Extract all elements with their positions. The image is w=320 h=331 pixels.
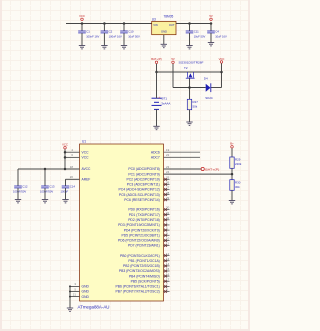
- wire: [81, 24, 83, 32]
- svg-text:PC3 (ADC3/PCINT11): PC3 (ADC3/PCINT11): [127, 183, 160, 187]
- junction: [64, 168, 67, 171]
- ground (C1): [79, 46, 85, 49]
- pin 24 wire (PC1) to divider: [164, 170, 233, 174]
- svg-text:C4: C4: [215, 29, 219, 33]
- pin 8 stub with no-connect cross: [164, 288, 170, 293]
- capacitor C2: [101, 29, 122, 38]
- wire (C13 to ground): [44, 188, 46, 200]
- pin 19 wire (ADC6): [164, 148, 201, 152]
- ground (C13): [42, 200, 48, 203]
- wire: [123, 24, 125, 32]
- pin 28 stub with no-connect cross: [164, 191, 170, 196]
- junction: [69, 296, 71, 298]
- pin 17 stub with no-connect cross: [164, 277, 170, 282]
- junction: [188, 22, 191, 25]
- wire (C14 lead from AREF): [65, 179, 67, 186]
- svg-text:100nF 16V: 100nF 16V: [86, 35, 99, 39]
- svg-text:18: 18: [70, 165, 74, 169]
- svg-text:C2: C2: [109, 29, 113, 33]
- pin 31 stub with no-connect cross: [164, 211, 170, 216]
- svg-text:15: 15: [166, 267, 170, 271]
- svg-text:PC4 (ADC4-SDA/PCINT12): PC4 (ADC4-SDA/PCINT12): [119, 188, 160, 192]
- pin 3 stub (GND): [70, 282, 80, 286]
- junction: [103, 22, 106, 25]
- svg-text:PD6 (PCINT22/OC0A/AIN0): PD6 (PCINT22/OC0A/AIN0): [118, 239, 160, 243]
- svg-text:PD0 (RXD/PCINT16): PD0 (RXD/PCINT16): [128, 208, 159, 212]
- svg-text:AVCC: AVCC: [82, 167, 92, 171]
- pin 13 stub with no-connect cross: [164, 257, 170, 262]
- svg-text:VCC: VCC: [82, 150, 90, 154]
- capacitor C11: [186, 29, 206, 38]
- svg-text:PD7 (PCINT23/AIN1): PD7 (PCINT23/AIN1): [128, 244, 160, 248]
- svg-text:32: 32: [166, 216, 170, 220]
- designator U1: [82, 140, 86, 144]
- svg-text:PB5 (SCK/PCINT5): PB5 (SCK/PCINT5): [131, 279, 160, 283]
- capacitor C1: [78, 29, 99, 38]
- svg-text:C10: C10: [128, 29, 134, 33]
- wire (U3 GND lead): [163, 35, 165, 45]
- ground (C2): [101, 46, 107, 49]
- svg-text:10: 10: [166, 237, 170, 241]
- svg-text:U3: U3: [152, 17, 156, 21]
- svg-text:D4: D4: [204, 77, 208, 81]
- wire (BAT+ port to rail): [156, 64, 158, 72]
- battery BT1: [152, 96, 171, 109]
- svg-text:PB3 (PCINT3/OC2A/MOSI): PB3 (PCINT3/OC2A/MOSI): [119, 269, 160, 273]
- svg-text:PB0 (PCINT0/CLKO/ICP1): PB0 (PCINT0/CLKO/ICP1): [120, 254, 160, 258]
- junction: [231, 173, 234, 176]
- pin 9 stub with no-connect cross: [164, 231, 170, 236]
- svg-text:GND: GND: [82, 290, 90, 294]
- svg-text:50k: 50k: [193, 105, 198, 109]
- wire (C13 lead): [44, 169, 46, 186]
- svg-text:BAT+(P): BAT+(P): [205, 167, 219, 171]
- junction: [64, 151, 67, 154]
- ground (C10): [121, 46, 127, 49]
- pin 20 wire (AREF): [66, 175, 80, 179]
- wire (VCC node vertical): [221, 72, 223, 88]
- power port 5V: [209, 14, 213, 20]
- wire (R27 to ground): [189, 110, 191, 122]
- svg-text:12: 12: [166, 252, 170, 256]
- svg-text:PD3 (PCINT19/OC2B/INT1): PD3 (PCINT19/OC2B/INT1): [118, 223, 160, 227]
- svg-text:23: 23: [166, 165, 170, 169]
- wire (battery negative lead): [156, 109, 158, 126]
- svg-text:PB7 (PCINT7/XTAL2/TOSC2): PB7 (PCINT7/XTAL2/TOSC2): [116, 290, 160, 294]
- capacitor C13: [40, 184, 55, 193]
- pin 12 stub with no-connect cross: [164, 252, 170, 257]
- wire: [210, 33, 212, 43]
- svg-text:16: 16: [166, 272, 170, 276]
- svg-text:PC2 (ADC2/PCINT10): PC2 (ADC2/PCINT10): [127, 178, 160, 182]
- ground (C12): [15, 200, 21, 203]
- designator U3: [152, 17, 156, 21]
- svg-text:100nF 16V: 100nF 16V: [109, 35, 122, 39]
- capacitor C4: [207, 29, 227, 38]
- svg-text:PC0 (ADC0/PCINT8): PC0 (ADC0/PCINT8): [128, 167, 159, 171]
- svg-text:VIN: VIN: [153, 23, 158, 27]
- wire (T2 gate to pulldown): [189, 78, 191, 99]
- junction: [69, 285, 71, 287]
- svg-text:30: 30: [166, 206, 170, 210]
- capacitor C14: [61, 184, 76, 193]
- svg-text:AREF: AREF: [82, 178, 91, 182]
- pin 29 stub with no-connect cross: [164, 196, 170, 201]
- wire (5V port down to diode branch): [172, 64, 174, 88]
- svg-text:B+: B+: [230, 142, 234, 146]
- svg-text:C11: C11: [194, 29, 199, 33]
- pin 22 wire (ADC7): [164, 153, 201, 157]
- wire (C12 to ground): [17, 188, 19, 200]
- pin 32 stub with no-connect cross: [164, 216, 170, 221]
- svg-text:10uF 50V: 10uF 50V: [194, 35, 206, 39]
- svg-text:26: 26: [166, 181, 170, 185]
- pin 1 stub with no-connect cross: [164, 221, 170, 226]
- power port VCC: [62, 143, 68, 149]
- pin 2 stub with no-connect cross: [164, 226, 170, 231]
- transistor T2 (P-MOSFET SI2301): [186, 72, 195, 78]
- wire (VCC port lead): [221, 63, 223, 72]
- U1 left-side pin name labels: [82, 150, 92, 298]
- capacitor C12: [13, 184, 28, 193]
- junction: [69, 291, 71, 293]
- svg-text:U1: U1: [82, 140, 86, 144]
- pin 10 stub with no-connect cross: [164, 237, 170, 242]
- svg-text:C12: C12: [22, 184, 28, 188]
- svg-text:19: 19: [166, 148, 170, 152]
- ground (U3): [161, 44, 167, 47]
- wire: [210, 24, 212, 32]
- wire: [176, 23, 211, 25]
- ground (divider): [229, 201, 235, 204]
- pin 7 stub with no-connect cross: [164, 283, 170, 288]
- ground (U1): [67, 308, 73, 311]
- svg-text:PD1 (TXD/PCINT17): PD1 (TXD/PCINT17): [129, 213, 160, 217]
- svg-text:PB4 (PCINT4/MISO): PB4 (PCINT4/MISO): [129, 274, 160, 278]
- svg-text:10uF 16V: 10uF 16V: [215, 35, 227, 39]
- pin 14 stub with no-connect cross: [164, 262, 170, 267]
- pin 11 stub with no-connect cross: [164, 242, 170, 247]
- svg-text:BT1: BT1: [162, 96, 168, 100]
- svg-text:+: +: [158, 96, 160, 100]
- svg-text:BAT+(P): BAT+(P): [151, 57, 162, 61]
- junction: [123, 22, 126, 25]
- power port B+: [230, 142, 234, 148]
- svg-text:100nF/50V: 100nF/50V: [13, 190, 26, 194]
- ground (R27): [186, 122, 192, 125]
- pin 5 stub (GND): [70, 287, 80, 291]
- wire (VCC vertical to AVCC): [64, 149, 66, 169]
- svg-text:29: 29: [166, 196, 170, 200]
- pin 21 stub (GND): [70, 292, 80, 296]
- capacitor C10: [120, 29, 140, 38]
- svg-text:VCC: VCC: [82, 156, 90, 160]
- svg-text:PD4 (PCINT20/XCK/T0): PD4 (PCINT20/XCK/T0): [124, 228, 160, 232]
- svg-text:10uF 50V: 10uF 50V: [128, 35, 140, 39]
- svg-text:100nF: 100nF: [61, 190, 69, 194]
- pin 27 stub with no-connect cross: [164, 186, 170, 191]
- wire (diode branch): [173, 87, 206, 89]
- wire (C14 to ground): [65, 188, 67, 200]
- svg-text:20: 20: [70, 175, 74, 179]
- pin 6 stub (VCC): [65, 153, 80, 157]
- wire (diode cathode to VCC node): [211, 87, 222, 89]
- ground (C14): [62, 200, 68, 203]
- svg-text:PB2 (PCINT2/SS/OC1B): PB2 (PCINT2/SS/OC1B): [123, 264, 160, 268]
- svg-text:PD2 (INT0/PCINT18): PD2 (INT0/PCINT18): [128, 218, 160, 222]
- svg-text:11: 11: [166, 242, 169, 246]
- pin 26 stub with no-connect cross: [164, 181, 170, 186]
- resistor R27: [187, 99, 198, 109]
- power port VCC: [219, 57, 225, 63]
- svg-text:GND: GND: [82, 295, 90, 299]
- pin 23 wire (PC0) to net BAT+(P): [164, 165, 202, 169]
- junction: [81, 22, 84, 25]
- wire (GND tie vertical): [69, 286, 71, 308]
- pin 16 stub with no-connect cross: [164, 272, 170, 277]
- wire: [189, 33, 191, 46]
- svg-text:VCC: VCC: [219, 57, 225, 61]
- svg-text:ADC7: ADC7: [151, 156, 160, 160]
- ground (C11): [186, 46, 192, 49]
- ground (C4): [208, 43, 214, 46]
- svg-text:21: 21: [73, 292, 77, 296]
- svg-text:220k: 220k: [235, 162, 242, 166]
- svg-text:30k: 30k: [235, 185, 240, 189]
- microcontroller U1 ATmega88 body: [80, 144, 164, 301]
- junction: [44, 168, 47, 171]
- svg-text:PB1 (PCINT1/OC1A): PB1 (PCINT1/OC1A): [128, 259, 159, 263]
- svg-text:24: 24: [166, 170, 170, 174]
- power port 5V: [171, 57, 175, 63]
- wire: [103, 24, 105, 32]
- diode D4 SK24: [204, 77, 213, 100]
- schematic sheet background: [0, 0, 250, 331]
- value label SI2301DS/TR26F: [179, 61, 204, 65]
- wire: [81, 33, 83, 46]
- wire: [189, 24, 191, 32]
- svg-text:ADC6: ADC6: [151, 150, 160, 154]
- svg-text:GND: GND: [161, 30, 167, 34]
- svg-text:31: 31: [166, 211, 170, 215]
- svg-text:SK24: SK24: [205, 96, 213, 100]
- designator T2: [184, 66, 188, 70]
- svg-text:22: 22: [166, 153, 170, 157]
- svg-text:C13: C13: [49, 184, 55, 188]
- svg-text:VCC: VCC: [62, 143, 68, 147]
- svg-text:3xAAA: 3xAAA: [161, 102, 170, 106]
- wire: [157, 71, 222, 73]
- wire (battery positive lead): [156, 72, 158, 98]
- svg-text:28: 28: [166, 191, 170, 195]
- svg-text:R27: R27: [193, 100, 199, 104]
- svg-text:78M05: 78M05: [164, 14, 174, 18]
- junction: [155, 71, 158, 74]
- svg-text:PB6 (PCINT6/XTAL1/TOSC1): PB6 (PCINT6/XTAL1/TOSC1): [116, 285, 160, 289]
- svg-text:13: 13: [166, 257, 170, 261]
- net label BAT+(P): [201, 167, 219, 171]
- svg-text:ATmega88A-AU: ATmega88A-AU: [78, 304, 110, 309]
- wire (B+ to R29): [231, 148, 233, 157]
- value label ATmega88A-AU: [78, 304, 110, 309]
- svg-text:VCC: VCC: [79, 14, 85, 18]
- svg-text:C14: C14: [70, 184, 76, 188]
- svg-text:GND: GND: [82, 285, 90, 289]
- resistor R30: [230, 180, 241, 191]
- wire (R30 to ground): [231, 190, 233, 200]
- svg-text:25: 25: [166, 176, 170, 180]
- svg-text:SI2301DS/TR26F: SI2301DS/TR26F: [179, 61, 204, 65]
- svg-text:PC1 (ADC1/PCINT9): PC1 (ADC1/PCINT9): [128, 172, 159, 176]
- svg-text:PC6 (RESET/PCINT14): PC6 (RESET/PCINT14): [124, 198, 160, 202]
- junction: [64, 156, 67, 159]
- svg-text:T2: T2: [184, 66, 188, 70]
- svg-text:14: 14: [166, 262, 170, 266]
- svg-text:5V: 5V: [209, 14, 213, 18]
- pin 18 wire (AVCC): [18, 165, 80, 169]
- resistor R29: [230, 157, 242, 168]
- power port VCC: [79, 14, 85, 20]
- svg-text:PC5 (ADC5-SCL/PCINT13): PC5 (ADC5-SCL/PCINT13): [119, 193, 160, 197]
- junction: [210, 22, 213, 25]
- pin 30 stub with no-connect cross: [164, 206, 170, 211]
- value label 78M05: [164, 14, 174, 18]
- wire (C12 lead): [17, 169, 19, 186]
- svg-text:PD5 (PCINT21/OC0B/T1): PD5 (PCINT21/OC0B/T1): [122, 233, 160, 237]
- svg-text:17: 17: [166, 277, 170, 281]
- voltage regulator U3 78M05: [152, 21, 176, 34]
- U1 right-side pin name labels: [116, 150, 160, 293]
- svg-text:5V: 5V: [171, 57, 175, 61]
- wire: [103, 33, 105, 46]
- svg-text:R30: R30: [235, 180, 241, 184]
- wire (R29 to R30): [231, 168, 233, 179]
- wire: [123, 33, 125, 46]
- svg-text:C1: C1: [86, 29, 90, 33]
- ground (battery): [153, 126, 159, 129]
- pin 25 stub with no-connect cross: [164, 176, 170, 181]
- power port BAT+(P): [151, 57, 162, 63]
- pin 4 stub (VCC): [65, 148, 80, 152]
- svg-text:OUT: OUT: [169, 23, 175, 27]
- junction: [188, 86, 191, 89]
- pin 15 stub with no-connect cross: [164, 267, 170, 272]
- svg-text:27: 27: [166, 186, 170, 190]
- svg-text:R29: R29: [235, 158, 241, 162]
- svg-text:100nF/50V: 100nF/50V: [40, 190, 53, 194]
- wire: [66, 23, 152, 25]
- junction: [220, 71, 223, 74]
